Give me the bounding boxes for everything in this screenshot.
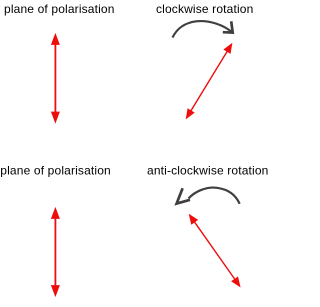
- arrowhead up-right (top-right arrow): [223, 43, 232, 54]
- arrowhead of clockwise arc (corner barbs): [223, 21, 233, 32]
- wire: rotated polarisation line (top-right): [190, 50, 228, 112]
- wire: vertical polarisation line (bottom-left): [54, 217, 56, 287]
- arrowhead of anti-clockwise arc (corner barbs): [177, 188, 190, 203]
- curved arrow: clockwise rotation arc: [173, 21, 232, 37]
- curved arrow: anti-clockwise rotation arc: [189, 188, 240, 204]
- svg-text:anti-clockwise rotation: anti-clockwise rotation: [147, 164, 269, 178]
- svg-text:plane of polarisation: plane of polarisation: [4, 2, 115, 16]
- svg-text:plane of polarisation: plane of polarisation: [0, 164, 111, 178]
- svg-text:clockwise rotation: clockwise rotation: [156, 2, 253, 16]
- arrowhead down-right (bottom-right arrow): [231, 277, 241, 288]
- arrowhead down (top-left arrow): [51, 112, 60, 124]
- arrowhead up (bottom-left arrow): [51, 207, 60, 219]
- arrowhead down-left (top-right arrow): [186, 108, 195, 119]
- wire: vertical polarisation line (top-left): [54, 43, 56, 114]
- wire: rotated polarisation line (bottom-right): [194, 221, 236, 281]
- arrowhead up-left (bottom-right arrow): [189, 214, 199, 225]
- arrowhead down (bottom-left arrow): [51, 285, 60, 297]
- arrowhead up (top-left arrow): [51, 33, 60, 45]
